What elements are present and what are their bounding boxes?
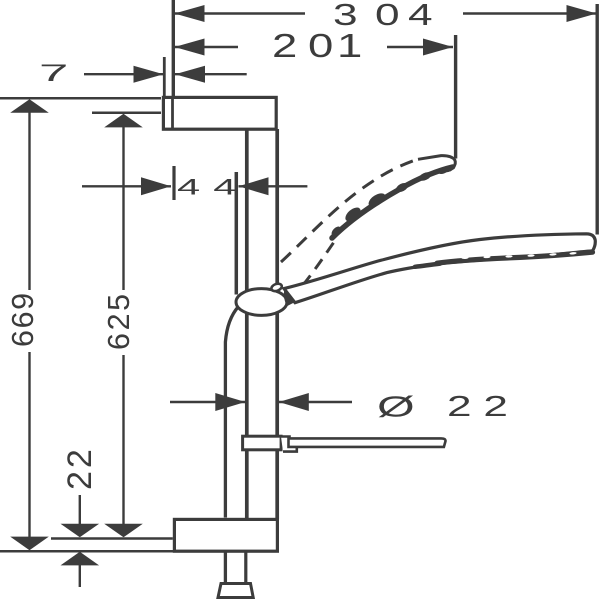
wire: 201 right extension line [454, 35, 457, 159]
top bracket inner line [171, 97, 174, 129]
svg-text:625: 625 [102, 291, 136, 350]
hose below bracket right edge [244, 553, 247, 583]
dashed shower head tip outline [418, 156, 455, 171]
solid shower spray face band [415, 252, 593, 267]
svg-text:1: 1 [337, 28, 362, 65]
rail tube left line [245, 129, 249, 519]
dim 201 line [175, 46, 454, 48]
label diameter 22 [377, 390, 508, 423]
svg-text:4: 4 [213, 175, 236, 200]
wire: 44 left extension line [172, 166, 175, 200]
soap dish arm [289, 438, 446, 447]
solid hand shower body (handle + head), white filled [284, 234, 595, 303]
dim 7 line [84, 73, 247, 75]
svg-text:669: 669 [6, 291, 40, 347]
wire: 304 right extension line [596, 4, 599, 235]
svg-text:2: 2 [483, 390, 508, 422]
dashed shower spray face band [330, 164, 454, 238]
dim 304 line [175, 12, 597, 14]
svg-text:2: 2 [272, 28, 297, 65]
hose below bracket left edge [224, 553, 227, 583]
hose upper-left edge line [235, 172, 239, 295]
svg-text:4: 4 [177, 175, 200, 200]
wire: 669 top extension line [0, 97, 161, 100]
svg-text:7: 7 [39, 60, 68, 87]
bottom wall bracket [174, 519, 277, 551]
label 44 [177, 175, 236, 200]
dim line Ø22 [170, 401, 352, 403]
top wall bracket [163, 97, 276, 129]
wire: 625 top extension line [92, 112, 161, 115]
wire: bottom extension line [0, 550, 174, 553]
svg-text:Ø: Ø [377, 391, 415, 423]
slider clip nub [270, 282, 282, 292]
label 201 [272, 28, 362, 65]
soap dish joint step [281, 437, 297, 452]
svg-text:0: 0 [308, 28, 333, 65]
wire: wall extension line B (vertical, from top edge to bracket) [172, 0, 175, 97]
label 304 [333, 0, 433, 32]
rail tube right line [275, 129, 279, 519]
wire: bottom bracket upper extension line [51, 537, 173, 540]
svg-text:0: 0 [375, 0, 400, 32]
svg-text:2: 2 [447, 390, 472, 422]
hose nut [218, 584, 253, 598]
dim 625 vertical [122, 122, 124, 527]
dim 22 vertical arrows [79, 495, 81, 525]
wire: extension line A (bracket left edge) [163, 57, 166, 97]
black fillet between ring and handle [284, 290, 295, 306]
soap dish clamp [243, 436, 282, 450]
dim 669 vertical [28, 108, 30, 540]
svg-text:4: 4 [408, 0, 433, 32]
svg-text:22: 22 [61, 446, 99, 490]
slider ring ellipse [236, 289, 287, 316]
dashed handle outline curve A [281, 159, 418, 262]
dashed handle outline curve B [303, 242, 334, 285]
hose curve below ring [225, 307, 238, 518]
dim 44 line [82, 185, 307, 187]
